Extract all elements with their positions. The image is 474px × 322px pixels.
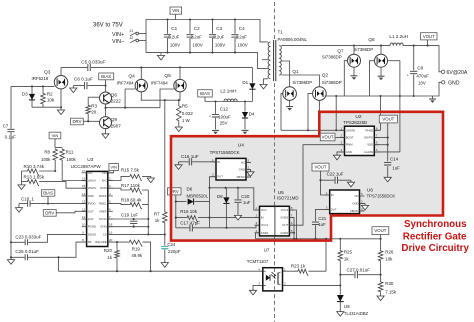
svg-text:TPS71550DCK: TPS71550DCK xyxy=(367,194,396,199)
wire C19 bottom row xyxy=(108,226,149,228)
wire LGATE row xyxy=(374,151,400,153)
wire VOUT stub xyxy=(427,40,429,46)
svg-text:Q9: Q9 xyxy=(111,117,118,123)
wire R18 row xyxy=(108,204,149,205)
wire Q4 drain up xyxy=(140,67,142,79)
capacitor C4 xyxy=(231,35,238,37)
svg-text:VDD: VDD xyxy=(367,143,373,147)
wire C22 row xyxy=(321,179,352,181)
resistor R17 xyxy=(129,188,142,194)
svg-text:C8: C8 xyxy=(417,66,423,71)
svg-text:VDD: VDD xyxy=(88,194,94,198)
svg-text:D1: D1 xyxy=(242,80,248,85)
svg-text:J2: J2 xyxy=(130,36,134,40)
ground C18 xyxy=(15,208,22,213)
wire Q7 gate riser xyxy=(344,61,348,96)
svg-text:100V: 100V xyxy=(192,42,202,47)
U4 pins xyxy=(211,158,251,179)
svg-text:R15 7.5k: R15 7.5k xyxy=(121,168,140,173)
svg-text:Q1: Q1 xyxy=(292,69,299,74)
svg-text:FB/NC: FB/NC xyxy=(350,209,358,213)
svg-text:VOUT: VOUT xyxy=(374,228,386,233)
wire U6 OUT / C21 column xyxy=(316,209,330,238)
wire DRV to Q9 base xyxy=(83,120,99,122)
wire VIN box stub xyxy=(175,14,177,19)
connector J2 xyxy=(130,39,139,43)
wire Q2 source to VOUT xyxy=(318,100,320,136)
wire R25/U8 column xyxy=(339,239,341,295)
ground C22 xyxy=(347,182,354,187)
power ground Q1 xyxy=(286,107,293,111)
wire Q5 drain up xyxy=(179,67,181,79)
wire Q3 gate row xyxy=(11,85,54,87)
svg-text:TPS28225D: TPS28225D xyxy=(343,120,367,125)
wire LNDDV row xyxy=(62,180,86,182)
svg-text:R3: R3 xyxy=(91,103,97,108)
net label VIN 2 xyxy=(109,164,119,171)
svg-text:R13 1.65k: R13 1.65k xyxy=(24,175,45,180)
svg-text:Q8: Q8 xyxy=(368,37,375,42)
svg-text:DRV: DRV xyxy=(45,210,54,215)
wire C5 rail xyxy=(61,66,252,68)
svg-text:PA0806.004NL: PA0806.004NL xyxy=(278,37,308,42)
svg-text:IN: IN xyxy=(261,216,264,220)
U7 pin numbers xyxy=(258,267,286,285)
svg-text:AUX: AUX xyxy=(88,217,94,221)
sync rectifier red outline xyxy=(171,112,443,241)
svg-text:U3: U3 xyxy=(87,157,93,163)
wire Q2 drain riser to UGATE xyxy=(335,96,337,130)
svg-text:N/C: N/C xyxy=(102,179,107,183)
wire Q1 gate xyxy=(281,94,283,131)
ground input bank xyxy=(157,55,164,60)
svg-text:Q2: Q2 xyxy=(322,73,329,78)
svg-text:D3: D3 xyxy=(22,91,28,96)
svg-text:VOUT: VOUT xyxy=(315,165,327,170)
resistor R15 xyxy=(129,174,142,180)
svg-text:ISO721MD: ISO721MD xyxy=(277,196,299,201)
ground left rail xyxy=(7,260,14,265)
wire BIAS2 stub xyxy=(204,97,206,102)
svg-text:C12: C12 xyxy=(220,107,229,112)
wire U6 gnd xyxy=(360,204,366,206)
svg-text:D8: D8 xyxy=(217,194,223,199)
wire C18 row xyxy=(19,203,87,205)
ground C14 xyxy=(384,177,391,182)
svg-text:VCC1: VCC1 xyxy=(261,223,269,227)
svg-text:0.1uF: 0.1uF xyxy=(5,134,17,139)
capacitor C7 xyxy=(7,129,14,131)
svg-text:20: 20 xyxy=(109,238,113,242)
diode D3 xyxy=(29,94,35,100)
wire U8 to gnd xyxy=(339,302,341,312)
svg-text:PVDD: PVDD xyxy=(88,202,96,206)
wire VIN2 stub xyxy=(108,170,114,172)
svg-text:VIN: VIN xyxy=(52,133,59,138)
svg-text:R18 60.4k: R18 60.4k xyxy=(121,197,142,202)
svg-text:ROFF: ROFF xyxy=(99,194,107,198)
svg-text:FB/NC: FB/NC xyxy=(237,175,245,179)
wire R5 column xyxy=(178,100,180,127)
svg-text:10: 10 xyxy=(82,223,86,227)
wire VIN to R8/R11 xyxy=(55,139,62,148)
svg-text:49.9k: 49.9k xyxy=(131,253,143,258)
wire D8 column xyxy=(225,188,227,228)
svg-text:L1 2.2uH: L1 2.2uH xyxy=(389,34,408,39)
wire UGATE row xyxy=(281,129,345,131)
svg-text:C16 1uF: C16 1uF xyxy=(181,154,199,159)
svg-text:C1: C1 xyxy=(171,26,177,31)
svg-text:Q7: Q7 xyxy=(337,48,344,53)
wire R16 rung xyxy=(176,217,260,219)
wire VIN- stub xyxy=(139,40,147,42)
net label VOUT 6 xyxy=(379,115,397,123)
capacitor C12 xyxy=(212,115,219,117)
wire EN stub xyxy=(374,137,387,139)
svg-text:2222: 2222 xyxy=(111,99,122,104)
svg-text:C23 0.033uF: C23 0.033uF xyxy=(15,235,41,240)
transistor Q5 xyxy=(174,79,186,91)
transistor Q7 xyxy=(348,54,361,67)
svg-text:20: 20 xyxy=(91,110,97,115)
transistor Q3 xyxy=(54,76,67,89)
svg-text:GND1: GND1 xyxy=(261,231,269,235)
svg-text:EN/PG: EN/PG xyxy=(364,136,373,140)
wire Q9 collector down xyxy=(105,129,107,134)
U7 isolation dashes xyxy=(274,269,276,291)
svg-text:Rectifier Gate: Rectifier Gate xyxy=(403,231,467,242)
wire Q6-Q9 emitters xyxy=(105,104,107,117)
sync rectifier shaded region fill xyxy=(171,112,443,241)
wire VIN+ stub xyxy=(139,33,147,35)
wire BOOT stub xyxy=(335,137,345,139)
ground R15 xyxy=(147,178,154,183)
svg-text:2907: 2907 xyxy=(111,123,122,128)
wire R8 bottom xyxy=(54,161,56,171)
ground primary xyxy=(260,84,267,89)
op-amp U5 ISO721MD box xyxy=(260,206,290,236)
ground C24 xyxy=(161,263,168,268)
wire DRV loop left xyxy=(175,195,177,228)
wire bottom feedback rail xyxy=(59,270,263,272)
svg-text:RSLOPE: RSLOPE xyxy=(95,240,106,244)
wire U4 gnd xyxy=(246,170,251,172)
capacitor C21 xyxy=(312,222,319,224)
svg-text:GND: GND xyxy=(448,81,460,87)
U2 pins xyxy=(340,126,380,154)
svg-text:R10 3.74k: R10 3.74k xyxy=(24,164,45,169)
wire phase riser to LGATE xyxy=(399,61,401,152)
wire C18 gnd stub xyxy=(18,204,20,208)
capacitor C2 xyxy=(186,35,193,37)
svg-text:1uF: 1uF xyxy=(392,165,400,170)
svg-text:RDEL: RDEL xyxy=(99,202,107,206)
power ground D4 xyxy=(242,130,249,134)
svg-text:18: 18 xyxy=(109,223,113,227)
svg-text:+: + xyxy=(209,115,211,119)
capacitor C22 xyxy=(335,177,337,184)
wire Q1 source down xyxy=(289,100,291,106)
isolation boundary dashed line xyxy=(274,2,276,322)
svg-text:GND: GND xyxy=(346,150,352,154)
svg-text:J1: J1 xyxy=(130,29,134,33)
wire primary bottom tap xyxy=(264,79,268,85)
U5 pins xyxy=(255,206,295,235)
wire C25 row xyxy=(11,257,59,271)
svg-text:VIN: VIN xyxy=(172,8,179,13)
svg-text:15: 15 xyxy=(82,184,86,188)
svg-text:100k: 100k xyxy=(41,157,51,162)
svg-text:VCC: VCC xyxy=(261,208,267,212)
ground Q9 xyxy=(102,134,109,139)
wire U5 VCC2 xyxy=(289,210,296,239)
svg-text:13: 13 xyxy=(82,200,86,204)
svg-text:D6: D6 xyxy=(187,187,193,192)
svg-text:GND: GND xyxy=(352,202,358,206)
U6 pins xyxy=(325,191,365,213)
wire R17 row xyxy=(108,188,149,190)
svg-text:LINOV: LINOV xyxy=(88,186,97,190)
wire phase to PHSE xyxy=(380,96,382,130)
wire Q4/Q5 sources xyxy=(141,92,180,100)
svg-text:Q5: Q5 xyxy=(164,73,171,79)
net label BIAS 1 xyxy=(99,73,114,80)
svg-text:17: 17 xyxy=(82,169,86,173)
wire D3 column xyxy=(31,86,33,107)
svg-text:100k: 100k xyxy=(66,157,76,162)
svg-text:R5: R5 xyxy=(182,104,188,109)
svg-text:1uF: 1uF xyxy=(318,222,326,227)
wire secondary return rail xyxy=(325,82,442,96)
capacitor C27 xyxy=(355,271,357,278)
wire U6 FB stub xyxy=(360,210,365,212)
svg-text:TPS71550DCK: TPS71550DCK xyxy=(210,150,240,155)
op-amp U3 UCC2897APW box xyxy=(87,171,108,246)
wire input bottom rail xyxy=(146,53,268,69)
resistor R30 xyxy=(378,281,383,293)
ground R10/R13 xyxy=(18,185,25,190)
svg-text:R25: R25 xyxy=(344,250,353,255)
svg-text:BIAS: BIAS xyxy=(101,74,111,79)
wire C20 column xyxy=(237,188,239,216)
capacitor C8 xyxy=(410,71,417,73)
resistor R2 xyxy=(41,93,46,105)
wire R17/R18 tie column xyxy=(147,190,149,234)
svg-text:R26: R26 xyxy=(385,250,394,255)
wire U4 NC stub xyxy=(246,161,251,163)
svg-text:TL431AIDBZ: TL431AIDBZ xyxy=(344,311,369,316)
wire U7 pin2 row xyxy=(283,284,341,286)
svg-text:VOUT: VOUT xyxy=(322,135,334,140)
power ground C12 xyxy=(212,130,219,134)
shunt regulator U8 TL431AIDBZ xyxy=(337,295,344,302)
svg-text:R30: R30 xyxy=(385,281,394,286)
wire U5 GND2 b xyxy=(289,232,294,234)
wire U4 bottom rail xyxy=(210,188,260,210)
op-amp U7 TCMT1107 box xyxy=(263,268,283,291)
resistor R19 xyxy=(129,240,143,246)
svg-text:IN: IN xyxy=(331,193,334,197)
wire C3 column xyxy=(212,20,214,53)
wire out gnd stub xyxy=(432,96,434,99)
power ground Q8 xyxy=(378,76,385,80)
svg-text:Si7386DP: Si7386DP xyxy=(322,80,342,85)
wire secondary mid tap to Q1 xyxy=(281,61,289,87)
wire R20 column xyxy=(116,242,118,271)
wire C1 column xyxy=(167,20,169,53)
diode D6 xyxy=(188,199,194,205)
svg-text:R11: R11 xyxy=(66,149,74,154)
resistor R10 xyxy=(27,169,40,175)
resistor R8 xyxy=(53,148,58,161)
wire left bias gnd column xyxy=(21,171,23,185)
svg-text:2.2uF: 2.2uF xyxy=(168,35,180,40)
wire R3 column xyxy=(87,97,89,121)
resistor R20 xyxy=(115,249,120,258)
wire current sense riser xyxy=(164,100,166,236)
wire R23 riser xyxy=(325,239,327,271)
svg-text:U4: U4 xyxy=(238,143,244,149)
wire R30 column xyxy=(380,275,382,296)
svg-text:R23 1k: R23 1k xyxy=(291,264,306,269)
svg-text:1k: 1k xyxy=(344,256,349,261)
wire secondary bottom tap to Q2 xyxy=(281,75,319,87)
wire DRV2 to OUT xyxy=(56,211,86,213)
svg-text:VIN+: VIN+ xyxy=(112,32,124,38)
svg-text:GND: GND xyxy=(239,168,245,172)
svg-text:Si7386DP: Si7386DP xyxy=(322,55,342,60)
svg-text:UGATE: UGATE xyxy=(346,128,356,132)
U5 isolation center line xyxy=(274,206,276,236)
svg-text:100V: 100V xyxy=(215,42,225,47)
svg-text:OUT: OUT xyxy=(282,223,288,227)
wire PWM from U5 xyxy=(289,145,344,226)
wire D3/R2 bottom xyxy=(32,106,61,108)
svg-text:LINUV: LINUV xyxy=(88,179,96,183)
svg-text:VIN: VIN xyxy=(102,171,107,175)
wire R26 column xyxy=(380,239,382,275)
ground R5 xyxy=(175,127,182,132)
wire input ground stub xyxy=(160,53,162,56)
wire VOUT8 stub xyxy=(380,235,382,239)
U3 pins xyxy=(82,169,113,244)
wire BIAS3 stub xyxy=(47,196,49,203)
wire input top rail xyxy=(146,20,268,53)
svg-text:DRV: DRV xyxy=(72,119,81,124)
svg-text:Q6: Q6 xyxy=(111,92,118,98)
wire Q8 drain up xyxy=(380,46,382,55)
wire Q8 right stub xyxy=(388,60,400,62)
svg-text:C18 .1: C18 .1 xyxy=(21,196,34,201)
svg-text:R16 10k: R16 10k xyxy=(180,209,198,214)
svg-text:1 W: 1 W xyxy=(182,118,191,123)
wire Q8 source down xyxy=(380,67,382,76)
svg-text:BIAS: BIAS xyxy=(43,191,53,196)
ground U7 xyxy=(249,290,256,295)
svg-text:VOUT: VOUT xyxy=(382,117,394,122)
svg-text:220pF: 220pF xyxy=(168,249,181,254)
net label DRV 3 xyxy=(168,188,182,195)
svg-text:IN: IN xyxy=(217,160,220,164)
wire C2 column xyxy=(189,20,191,53)
op-amp U4 TPS71550DCK box xyxy=(216,158,246,180)
svg-text:25V: 25V xyxy=(220,121,228,126)
wire shaded bottom rail xyxy=(256,238,382,240)
svg-text:T1: T1 xyxy=(278,30,284,35)
svg-text:R19: R19 xyxy=(132,246,141,251)
svg-text:IRF7494: IRF7494 xyxy=(151,80,168,85)
svg-text:VREF: VREF xyxy=(99,209,107,213)
op-amp U2 TPS28225D box xyxy=(345,126,375,155)
svg-text:C19 1uF: C19 1uF xyxy=(121,213,139,218)
svg-text:R17 110k: R17 110k xyxy=(121,183,141,188)
svg-text:C21: C21 xyxy=(318,216,327,221)
wire R10 row xyxy=(22,170,56,172)
net label VOUT output xyxy=(421,33,437,40)
svg-text:PHSE: PHSE xyxy=(365,128,373,132)
wire C23 row xyxy=(11,234,87,242)
capacitor C3 xyxy=(209,35,216,37)
ground Q3 xyxy=(57,110,64,115)
wire Q8 gate riser xyxy=(370,61,375,96)
wire U2 VDD column xyxy=(387,123,389,177)
ground R30 xyxy=(377,296,384,301)
net label VIN top xyxy=(170,7,182,14)
svg-text:Drive Circuitry: Drive Circuitry xyxy=(401,243,469,254)
svg-text:C22 1uF: C22 1uF xyxy=(327,171,344,176)
svg-text:U7: U7 xyxy=(264,248,270,253)
svg-text:C3: C3 xyxy=(216,26,222,31)
ground C20 xyxy=(234,215,241,220)
wire R23 row xyxy=(283,270,327,272)
capacitor C6 xyxy=(85,82,87,89)
svg-text:MBR0520L: MBR0520L xyxy=(187,193,209,198)
power ground output xyxy=(429,99,436,103)
wire VDD stub xyxy=(374,144,387,146)
wire U4 FB stub xyxy=(246,176,251,178)
wire R15 row xyxy=(108,176,151,180)
wire R2 column xyxy=(42,86,44,107)
wire Q7 drain up xyxy=(353,46,355,55)
svg-text:C17 47pF: C17 47pF xyxy=(180,221,200,226)
wire primary mid tap xyxy=(262,59,268,61)
svg-text:36V to 75V: 36V to 75V xyxy=(93,23,123,29)
svg-text:PGND: PGND xyxy=(88,225,96,229)
terminal VOUT+ xyxy=(442,70,445,73)
svg-text:100V: 100V xyxy=(237,42,247,47)
svg-text:SYNC: SYNC xyxy=(99,217,107,221)
svg-text:2.2uF: 2.2uF xyxy=(213,35,225,40)
wire secondary top rail xyxy=(281,45,390,47)
svg-text:D4: D4 xyxy=(249,111,255,116)
resistor R5 xyxy=(177,105,182,122)
svg-text:1k: 1k xyxy=(107,255,112,260)
resistor R13 xyxy=(27,180,40,186)
svg-text:LGATE: LGATE xyxy=(364,150,373,154)
svg-text:Q4: Q4 xyxy=(128,74,135,80)
svg-text:OUT: OUT xyxy=(88,209,94,213)
svg-text:Synchronous: Synchronous xyxy=(404,219,467,230)
wire C17 rung xyxy=(176,225,260,228)
wire Q2 gate xyxy=(308,94,313,131)
ground C6 xyxy=(70,88,77,93)
terminal GND xyxy=(442,81,445,84)
connector J1 xyxy=(130,32,139,36)
svg-text:C25 0.01uF: C25 0.01uF xyxy=(15,249,39,254)
capacitor C25 xyxy=(25,254,27,260)
U7 internals xyxy=(263,271,281,285)
resistor R11 xyxy=(60,148,65,161)
